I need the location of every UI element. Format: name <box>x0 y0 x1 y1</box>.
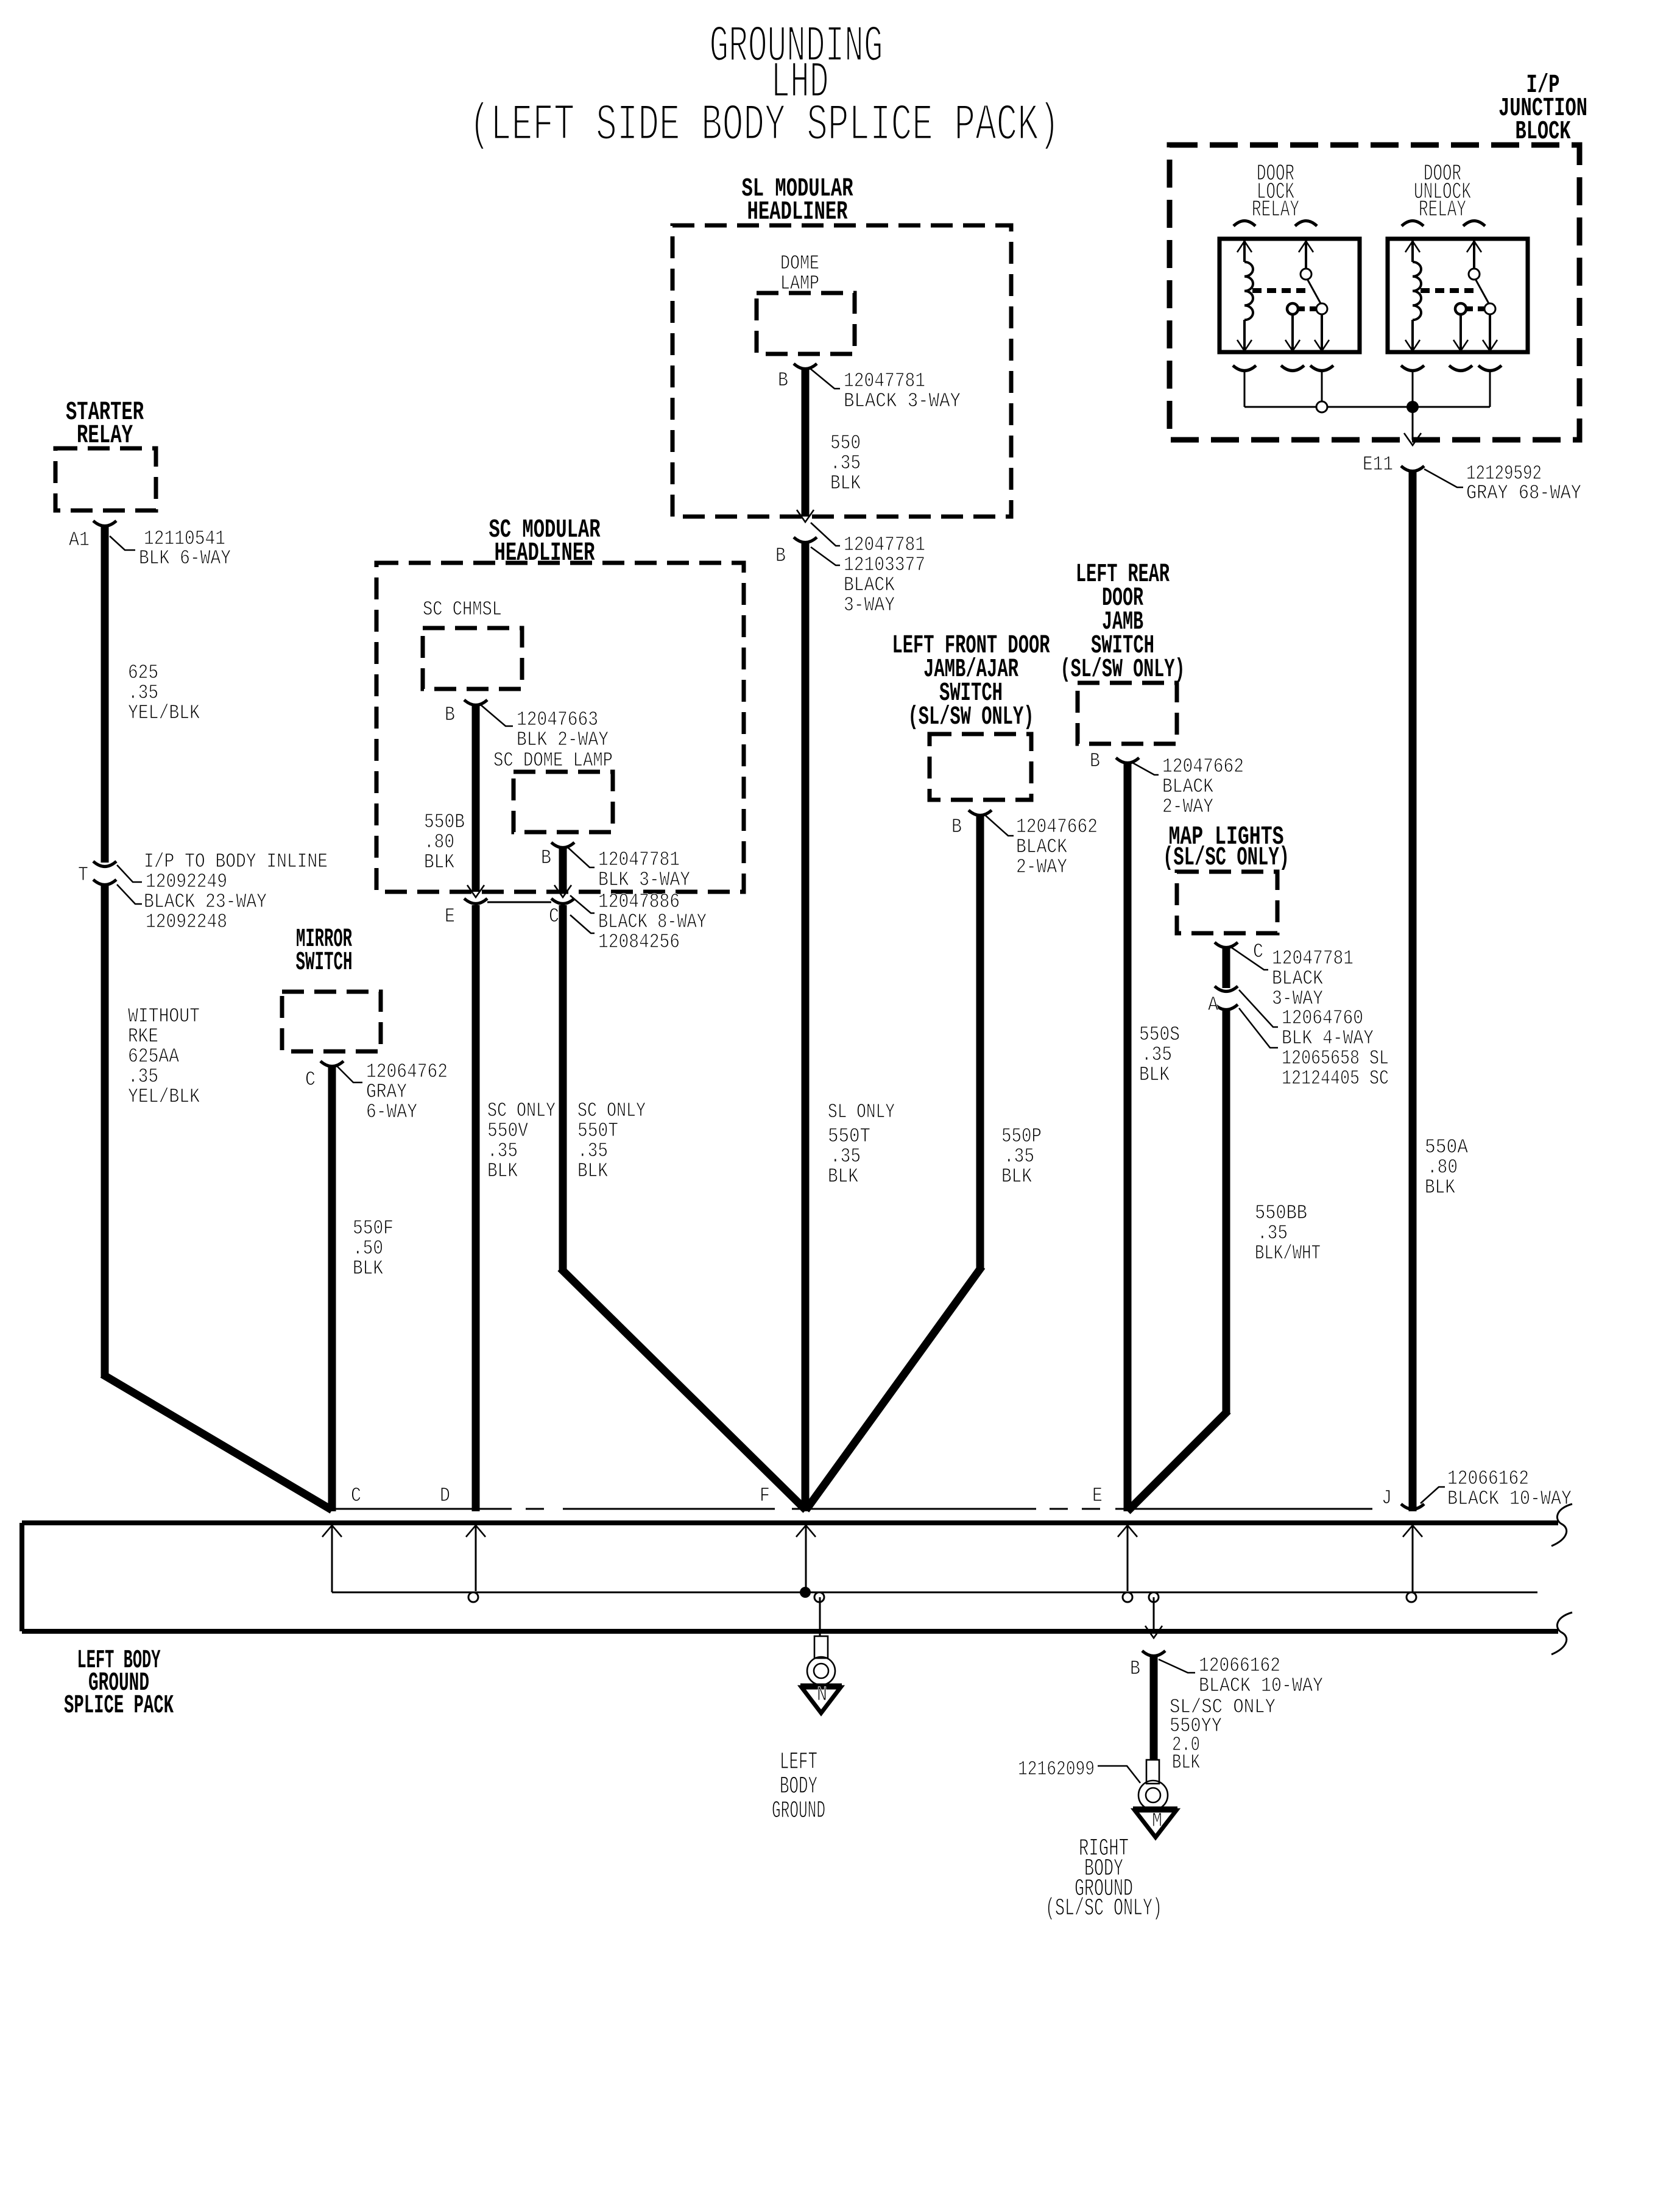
box-crossing arrow SL <box>797 510 814 522</box>
pin B arc (LF door) <box>969 810 992 816</box>
svg-text:BLK: BLK <box>828 1165 858 1188</box>
wire 625 from starter relay <box>101 526 109 863</box>
svg-text:SC CHMSL: SC CHMSL <box>423 598 502 621</box>
svg-text:.50: .50 <box>353 1237 383 1260</box>
svg-text:550A: 550A <box>1425 1136 1468 1159</box>
svg-text:12162099: 12162099 <box>1018 1758 1095 1781</box>
svg-text:BLK: BLK <box>487 1160 518 1182</box>
svg-text:B: B <box>445 704 455 726</box>
wire 550 <box>802 369 810 517</box>
svg-text:550: 550 <box>830 432 861 454</box>
svg-text:550S: 550S <box>1139 1023 1180 1046</box>
left body ground tap <box>819 1597 821 1636</box>
pin B arc (SC CHMSL) <box>464 700 487 705</box>
svg-text:BLK/WHT: BLK/WHT <box>1255 1242 1321 1265</box>
ground triangle N <box>800 1684 842 1687</box>
svg-text:RELAY: RELAY <box>1252 197 1299 223</box>
starter relay box <box>55 448 156 510</box>
svg-text:BLACK: BLACK <box>1162 775 1213 798</box>
svg-text:.80: .80 <box>424 831 454 853</box>
svg-text:12047662: 12047662 <box>1162 755 1244 778</box>
SC CHMSL box <box>423 628 522 689</box>
svg-text:B: B <box>1130 1657 1140 1680</box>
inline connector T (I/P to body) <box>93 861 116 867</box>
svg-text:.35: .35 <box>487 1140 518 1162</box>
svg-text:550P: 550P <box>1001 1125 1042 1148</box>
svg-text:.35: .35 <box>830 1145 861 1168</box>
svg-text:B: B <box>775 545 786 567</box>
svg-text:DOME: DOME <box>780 252 819 275</box>
svg-text:BLACK: BLACK <box>1272 967 1323 990</box>
svg-text:.35: .35 <box>128 1065 158 1088</box>
relay box <box>1219 239 1360 352</box>
right ring terminal <box>1146 1760 1159 1784</box>
splice pack box <box>22 1520 1558 1525</box>
svg-text:12092249: 12092249 <box>146 870 227 893</box>
svg-text:12092248: 12092248 <box>146 911 227 933</box>
I/P junction block box <box>1170 145 1579 440</box>
wire from SC dome lamp <box>559 847 567 892</box>
svg-text:GRAY: GRAY <box>366 1081 407 1103</box>
wire 550P <box>976 815 984 1269</box>
svg-text:GROUND: GROUND <box>772 1798 825 1825</box>
svg-text:YEL/BLK: YEL/BLK <box>128 702 200 724</box>
svg-text:BLK 4-WAY: BLK 4-WAY <box>1282 1027 1374 1050</box>
mirror switch box <box>282 992 381 1051</box>
svg-text:(SL/SC ONLY): (SL/SC ONLY) <box>1045 1895 1162 1922</box>
svg-text:BLK: BLK <box>424 851 454 874</box>
wire 550F <box>328 1066 336 1511</box>
svg-text:I/P TO BODY INLINE: I/P TO BODY INLINE <box>144 850 328 873</box>
svg-text:A1: A1 <box>69 529 90 551</box>
pin B arc (SC dome lamp) <box>551 842 574 848</box>
svg-text:(SL/SW ONLY): (SL/SW ONLY) <box>1061 654 1185 684</box>
wire 550T(SC) to splice F <box>559 905 567 1271</box>
svg-text:(SL/SC ONLY): (SL/SC ONLY) <box>1163 842 1290 872</box>
svg-text:SC ONLY: SC ONLY <box>487 1100 556 1122</box>
internal bus lines <box>331 1525 333 1592</box>
svg-text:BLK: BLK <box>353 1257 383 1280</box>
svg-text:GRAY 68-WAY: GRAY 68-WAY <box>1466 482 1581 504</box>
svg-text:12047781: 12047781 <box>1272 947 1354 970</box>
svg-text:(SL/SW ONLY): (SL/SW ONLY) <box>908 702 1034 732</box>
svg-text:RELAY: RELAY <box>77 420 133 450</box>
SC modular headliner box <box>376 563 744 892</box>
svg-text:(LEFT SIDE BODY SPLICE PACK): (LEFT SIDE BODY SPLICE PACK) <box>470 97 1060 155</box>
svg-text:6-WAY: 6-WAY <box>366 1101 417 1123</box>
svg-text:12066162: 12066162 <box>1447 1467 1529 1490</box>
svg-text:BLK: BLK <box>1139 1064 1170 1086</box>
svg-text:BLK 6-WAY: BLK 6-WAY <box>139 547 231 570</box>
svg-text:550B: 550B <box>424 811 465 833</box>
relay switch <box>1473 241 1475 269</box>
wire 550YY <box>1150 1656 1158 1760</box>
splice dot F <box>800 1587 811 1598</box>
svg-text:E11: E11 <box>1363 453 1393 476</box>
splice circles <box>468 1592 478 1602</box>
svg-text:.35: .35 <box>128 682 158 704</box>
svg-text:HEADLINER: HEADLINER <box>747 197 848 227</box>
wire 550BB <box>1223 1009 1230 1413</box>
svg-text:RKE: RKE <box>128 1025 158 1048</box>
svg-text:550F: 550F <box>353 1217 394 1240</box>
svg-text:12047781: 12047781 <box>844 534 925 556</box>
svg-text:E: E <box>1092 1485 1103 1507</box>
pin B arc below SL box <box>794 537 817 543</box>
svg-text:12047781: 12047781 <box>844 370 925 392</box>
ground triangle M <box>1133 1807 1177 1810</box>
svg-text:BLACK: BLACK <box>1016 836 1067 858</box>
relay output wiring <box>1244 372 1246 407</box>
svg-text:12064760: 12064760 <box>1282 1007 1363 1029</box>
svg-text:SPLICE PACK: SPLICE PACK <box>64 1690 174 1720</box>
svg-text:BLACK 8-WAY: BLACK 8-WAY <box>598 911 707 933</box>
relay coil <box>1411 241 1414 262</box>
svg-text:BLACK 10-WAY: BLACK 10-WAY <box>1199 1675 1323 1697</box>
svg-text:LEFT: LEFT <box>780 1749 817 1776</box>
map lights box <box>1177 872 1277 933</box>
svg-text:2-WAY: 2-WAY <box>1016 856 1067 878</box>
junction circle (lock output) <box>1316 401 1327 412</box>
wire diagonal to splice C <box>102 1374 332 1510</box>
wire 550S <box>1124 763 1132 1511</box>
relay pin arcs bottom <box>1401 365 1424 371</box>
svg-text:C: C <box>351 1485 361 1507</box>
svg-text:625: 625 <box>128 662 158 684</box>
svg-text:.35: .35 <box>1004 1145 1034 1168</box>
pin B arc (dome lamp) <box>794 364 817 369</box>
svg-text:BODY: BODY <box>780 1773 817 1801</box>
svg-text:B: B <box>541 847 551 869</box>
relay pin arcs top <box>1234 221 1255 227</box>
SL modular headliner box <box>672 225 1011 517</box>
svg-text:.35: .35 <box>830 452 861 475</box>
pin J arc <box>1401 1504 1424 1509</box>
terminal line <box>331 1508 512 1510</box>
arrow out of I/P block <box>1404 433 1421 445</box>
svg-text:12047781: 12047781 <box>598 849 680 871</box>
svg-text:BLK: BLK <box>830 472 861 495</box>
left rear door switch box <box>1078 683 1177 744</box>
svg-text:550V: 550V <box>487 1120 528 1142</box>
svg-text:.80: .80 <box>1427 1156 1458 1179</box>
svg-text:D: D <box>440 1485 450 1507</box>
svg-text:SWITCH: SWITCH <box>296 947 353 977</box>
break marks right end <box>1551 1504 1572 1546</box>
svg-text:550T: 550T <box>577 1120 618 1142</box>
relay pin arcs bottom <box>1233 365 1256 371</box>
inline connector A <box>1215 986 1238 992</box>
bus entry arrows <box>322 1525 342 1537</box>
relay box <box>1388 239 1528 352</box>
wire 625AA lower <box>101 884 109 1377</box>
svg-text:M: M <box>1152 1810 1162 1832</box>
svg-text:550T: 550T <box>828 1125 870 1148</box>
svg-text:BLK 3-WAY: BLK 3-WAY <box>598 869 690 891</box>
junction dot E11 <box>1406 401 1419 413</box>
svg-text:C: C <box>305 1068 316 1091</box>
svg-text:YEL/BLK: YEL/BLK <box>128 1086 200 1108</box>
relay coil-switch dashed link <box>1252 288 1307 293</box>
svg-text:BLK 2-WAY: BLK 2-WAY <box>517 729 609 751</box>
svg-text:2-WAY: 2-WAY <box>1162 796 1213 818</box>
svg-text:F: F <box>760 1485 770 1507</box>
left ring terminal <box>814 1636 828 1658</box>
svg-text:E: E <box>445 905 455 928</box>
wire 550V to splice D <box>472 905 480 1511</box>
wire map lights upper <box>1223 947 1230 988</box>
svg-text:BLK: BLK <box>577 1160 608 1182</box>
svg-text:BLACK: BLACK <box>844 574 895 596</box>
svg-text:625AA: 625AA <box>128 1045 179 1068</box>
svg-text:BLACK 23-WAY: BLACK 23-WAY <box>144 891 267 913</box>
svg-text:.35: .35 <box>1257 1222 1288 1244</box>
svg-text:B: B <box>951 816 962 838</box>
svg-text:3-WAY: 3-WAY <box>844 594 895 616</box>
svg-text:C: C <box>1253 941 1263 963</box>
svg-text:SL ONLY: SL ONLY <box>828 1101 895 1123</box>
svg-text:BLOCK: BLOCK <box>1516 116 1571 146</box>
pin C arc (map lights) <box>1215 942 1238 948</box>
pin E arc below SC box <box>464 898 487 904</box>
pin A1 connector arc <box>93 521 116 526</box>
wire 550A to splice J <box>1409 471 1417 1511</box>
svg-text:12047663: 12047663 <box>517 708 598 731</box>
svg-text:12065658 SL: 12065658 SL <box>1282 1047 1389 1070</box>
svg-text:WITHOUT: WITHOUT <box>128 1005 200 1028</box>
svg-text:BLK: BLK <box>1425 1176 1455 1199</box>
svg-text:12084256: 12084256 <box>598 931 680 953</box>
dome lamp box <box>757 293 855 354</box>
pin B bottom arc <box>1142 1651 1165 1656</box>
svg-text:B: B <box>778 369 788 392</box>
svg-text:T: T <box>78 864 88 886</box>
relay coil-switch dashed link <box>1421 288 1475 293</box>
svg-text:12103377: 12103377 <box>844 554 925 576</box>
svg-text:C: C <box>549 905 559 928</box>
svg-text:RELAY: RELAY <box>1419 197 1466 223</box>
svg-text:J: J <box>1382 1487 1392 1509</box>
relay coil <box>1243 241 1246 262</box>
svg-text:12047662: 12047662 <box>1016 816 1098 838</box>
wire 550T(SL) to splice F <box>802 542 810 1511</box>
svg-text:BLACK 3-WAY: BLACK 3-WAY <box>844 390 961 412</box>
svg-text:N: N <box>817 1684 827 1706</box>
svg-text:12064762: 12064762 <box>366 1061 448 1083</box>
relay arrows <box>1237 241 1252 252</box>
svg-text:.35: .35 <box>1142 1043 1172 1066</box>
svg-text:550BB: 550BB <box>1255 1202 1307 1224</box>
svg-text:B: B <box>1090 750 1100 772</box>
svg-text:BLK: BLK <box>1001 1165 1032 1188</box>
pin C arc below SC box <box>551 898 574 904</box>
8-way connector link line <box>487 902 551 903</box>
SC dome lamp box <box>514 772 613 832</box>
relay arrows <box>1405 241 1420 252</box>
svg-text:BLK: BLK <box>1172 1751 1200 1774</box>
svg-text:SC ONLY: SC ONLY <box>577 1100 646 1122</box>
svg-text:.35: .35 <box>577 1140 608 1162</box>
left front door switch box <box>930 734 1031 800</box>
box-crossing arrows SC <box>467 885 484 897</box>
svg-text:BLACK 10-WAY: BLACK 10-WAY <box>1447 1488 1572 1510</box>
relay switch <box>1305 241 1307 269</box>
connector 12110541 leader <box>110 536 135 550</box>
relay pin arcs top <box>1402 221 1424 227</box>
pin B arc (LR door) <box>1116 758 1139 763</box>
svg-text:12066162: 12066162 <box>1199 1654 1280 1677</box>
svg-text:A: A <box>1208 994 1218 1016</box>
pin C connector arc <box>320 1061 344 1067</box>
wire 550B <box>472 705 480 892</box>
right body ground tap <box>1153 1597 1155 1631</box>
svg-text:SC DOME LAMP: SC DOME LAMP <box>493 749 613 772</box>
svg-text:12124405 SC: 12124405 SC <box>1282 1067 1389 1090</box>
svg-text:12047886: 12047886 <box>598 891 680 913</box>
